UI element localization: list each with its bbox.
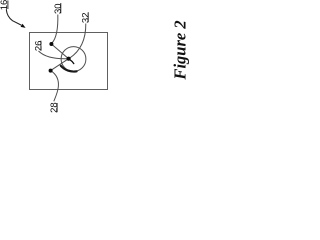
svg-text:Figure 2: Figure 2 bbox=[170, 20, 189, 80]
svg-text:30: 30 bbox=[53, 3, 64, 14]
svg-text:28: 28 bbox=[49, 102, 60, 113]
svg-text:16: 16 bbox=[0, 0, 10, 10]
svg-text:32: 32 bbox=[81, 13, 92, 24]
svg-text:26: 26 bbox=[33, 41, 44, 52]
